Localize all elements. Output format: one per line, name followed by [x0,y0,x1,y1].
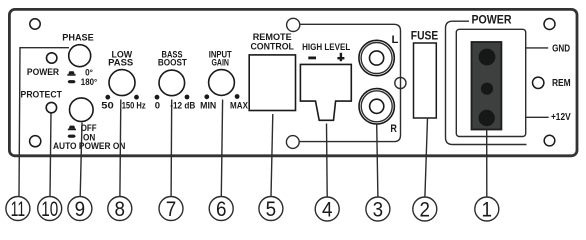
phase switch symbol 0 [68,71,74,74]
callout circle 6 [209,197,233,221]
callout circle 10 [38,197,62,221]
svg-text:-12 dB: -12 dB [170,100,195,111]
LED POWER [47,53,57,63]
panel outline [9,9,577,155]
knob INPUT GAIN [209,70,235,96]
svg-text:2: 2 [420,197,431,221]
svg-text:1: 1 [482,197,493,221]
svg-text:9: 9 [75,197,86,221]
screw hole bottom-left [30,136,41,147]
callout circle 3 [366,197,390,221]
dot 50 [105,95,110,100]
knob BASS BOOST [159,70,185,96]
svg-text:50: 50 [101,100,114,111]
svg-text:11: 11 [11,197,26,221]
RCA jack L center [370,51,384,65]
leader line 5 (remote control) [271,114,273,196]
svg-text:6: 6 [216,197,227,221]
svg-text:180°: 180° [81,77,98,87]
svg-text:3: 3 [373,197,384,221]
knob PHASE [69,45,91,67]
svg-text:FUSE: FUSE [411,30,439,42]
switch symbol ON [68,135,76,138]
dot 0 [155,95,160,100]
svg-text:0: 0 [155,100,160,111]
callout circle 7 [159,197,183,221]
dot MIN [204,94,209,99]
bracket screw right [395,77,406,88]
screw hole top-left [30,19,40,29]
callout circle 11 [6,197,30,221]
dot MAX [235,94,240,99]
label minus [308,57,316,60]
svg-text:POWER: POWER [471,13,511,27]
dot -12dB [185,95,190,100]
callout circle 1 [475,197,499,221]
svg-text:HIGH LEVEL: HIGH LEVEL [302,42,351,52]
inner bracket box around jacks [299,24,400,141]
RCA jack R ring [361,91,392,122]
fuse holder [414,43,437,118]
knob LOW PASS [109,70,135,96]
leader line 9 (auto power on) [80,123,82,197]
svg-text:10: 10 [41,197,58,221]
high level connector [300,64,351,120]
svg-text:150 Hz: 150 Hz [122,100,146,111]
knob AUTO POWER ON switch [70,98,94,122]
power box open bracket [446,21,527,144]
svg-text:REM: REM [552,78,571,89]
switch symbol OFF [69,126,75,129]
leader line 2 (fuse) [425,118,428,197]
bracket screw bottom [286,136,299,149]
terminal hole GND [479,49,496,66]
callout circle 9 [68,197,92,221]
leader line 4 (high level) [326,124,329,197]
GND pointer line [526,47,548,49]
RCA jack L ring [361,43,392,74]
RCA jack R outer [359,89,394,124]
remote control jack [249,55,295,111]
screw hole top-right [544,19,555,30]
terminal block [472,42,502,130]
+12V pointer line [526,116,549,118]
leader line 10 (protect) [50,113,51,196]
leader line 1 (power terminal) [486,130,488,197]
svg-text:BOOST: BOOST [158,58,187,69]
svg-text:7: 7 [166,197,177,221]
REM hole [533,77,544,88]
callout circle 4 [315,197,339,221]
svg-text:PASS: PASS [108,58,133,69]
svg-text:8: 8 [115,197,126,221]
callout circle 2 [413,197,437,221]
svg-text:GAIN: GAIN [211,58,229,69]
leader line 6 (input gain) [221,100,222,197]
RCA jack L outer [359,40,394,75]
LED PROTECT [46,102,56,112]
terminal hole +12V [479,110,495,126]
leader line 8 (low pass) [119,100,122,197]
terminal hole REM [481,83,493,95]
callout circle 5 [259,197,283,221]
bracket screw top [287,18,300,31]
phase switch symbol 180 [68,80,76,83]
svg-text:PROTECT: PROTECT [21,90,62,101]
callout circle 8 [108,197,132,221]
svg-text:GND: GND [552,43,570,54]
svg-text:R: R [390,123,397,135]
svg-text:AUTO POWER ON: AUTO POWER ON [53,141,126,152]
leader line 11 (phase) L-shape [19,48,69,197]
leader line 7 (bass boost) [170,100,173,197]
svg-text:L: L [392,34,399,46]
svg-text:POWER: POWER [27,67,59,78]
svg-text:5: 5 [266,197,277,221]
svg-text:PHASE: PHASE [62,32,94,43]
svg-text:CONTROL: CONTROL [250,41,294,52]
svg-text:MAX: MAX [230,100,248,111]
leader line 3 (RCA R) [377,124,378,197]
svg-text:4: 4 [322,197,333,221]
svg-text:MIN: MIN [200,100,216,111]
screw hole bottom-right [544,135,555,146]
dot 150 [134,95,139,100]
label plus [337,57,344,59]
svg-text:+12V: +12V [551,112,571,123]
terminal surround rect [456,29,525,136]
RCA jack R center [370,99,384,113]
